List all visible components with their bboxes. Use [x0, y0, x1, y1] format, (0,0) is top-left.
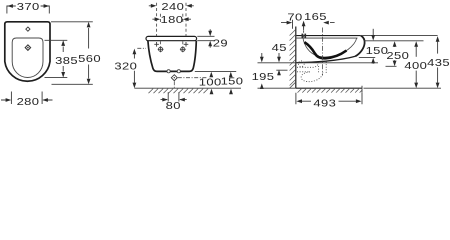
svg-text:560: 560 — [78, 54, 101, 64]
bidet inner rim (plan view) — [12, 38, 43, 77]
dimension 400 (side) — [404, 41, 427, 88]
tap hole lower (plan) — [25, 45, 30, 50]
dimension 493 (depth) — [296, 93, 362, 109]
dimension 385 (inner rim length) — [45, 40, 79, 77]
tap hole upper (plan) — [26, 27, 30, 31]
rim inner line (side) — [296, 37, 357, 39]
dashed hole axes (180 pair) — [160, 14, 182, 47]
dimension 320 (front height) — [114, 49, 137, 89]
dimension 80 (drain hole spacing) — [161, 92, 187, 111]
svg-text:165: 165 — [304, 12, 327, 22]
dimension 560 (plan length) — [51, 22, 101, 85]
dashed hole axes (240 pair) — [157, 3, 186, 36]
svg-text:45: 45 — [272, 43, 287, 53]
drain holes on bottom edge — [167, 70, 170, 73]
svg-text:80: 80 — [166, 101, 181, 111]
dimension 180 (inner fixing holes) — [152, 15, 191, 25]
dimension 250 (side) — [386, 41, 410, 66]
svg-text:100: 100 — [199, 78, 222, 88]
leader at rim lip level (right) — [364, 40, 424, 42]
front edge profile (side) — [355, 36, 364, 57]
dimension 370 (plan width) — [7, 2, 49, 13]
drain centreline (side) — [322, 28, 324, 76]
dimensions 100 and 150 (outlet offsets) — [195, 72, 244, 95]
svg-text:280: 280 — [17, 97, 40, 107]
rim top line (side) — [296, 35, 360, 37]
svg-text:400: 400 — [404, 61, 427, 71]
fixing hole crosses — [154, 42, 188, 47]
reference leader, ceramic underside level — [258, 62, 379, 64]
floor hatching (front) — [149, 89, 209, 94]
svg-text:435: 435 — [427, 58, 450, 68]
body (front view) — [148, 41, 196, 72]
svg-text:240: 240 — [161, 2, 184, 12]
svg-text:493: 493 — [313, 99, 336, 109]
dimension 29 (rim bar thickness) — [197, 29, 228, 49]
floor hatching (side) — [298, 88, 363, 92]
underside line (side) — [297, 56, 356, 62]
dimension 45 — [272, 43, 288, 75]
outlet diamond (front) — [171, 75, 177, 81]
dimension 435 (overall height) — [427, 36, 450, 88]
wall line (side view) — [295, 27, 297, 89]
floor line (side) — [296, 87, 362, 89]
leader at rim top level (right) — [362, 35, 438, 37]
wall hatching — [290, 30, 296, 89]
rim bar (front view) — [146, 36, 197, 40]
fixing axis dashed (side) — [303, 26, 305, 38]
svg-text:385: 385 — [55, 56, 78, 66]
svg-text:150: 150 — [366, 46, 389, 56]
svg-text:250: 250 — [386, 51, 409, 61]
floor line (front) — [134, 87, 241, 89]
hatch right edge — [361, 86, 363, 93]
bowl interior thin outline (side) — [303, 38, 357, 57]
svg-text:320: 320 — [114, 62, 137, 72]
svg-text:180: 180 — [160, 15, 183, 25]
bowl interior thick shadow curve (side) — [305, 42, 347, 58]
dimension 280 (plan bottom width) — [1, 92, 53, 108]
dimension 240 (outer fixing holes) — [149, 2, 194, 12]
svg-text:70: 70 — [287, 13, 302, 23]
dimensions 70 and 165 (wall offsets) — [281, 12, 335, 30]
dimension 195 — [252, 53, 275, 89]
dimension 150 (side, rim to underside) — [359, 29, 389, 64]
side fixing holes — [158, 46, 186, 52]
hidden drain pipe (dotted) — [297, 61, 326, 82]
wall bracket nub (side) — [302, 34, 304, 38]
svg-text:150: 150 — [221, 77, 244, 87]
floor level leader (right, dashed) — [364, 87, 442, 89]
svg-text:195: 195 — [252, 72, 275, 82]
floor leader left of wall — [258, 87, 296, 89]
svg-text:370: 370 — [17, 2, 40, 12]
bidet outer outline (plan view) — [5, 22, 50, 81]
svg-text:29: 29 — [213, 39, 228, 49]
centreline leaders (front) — [137, 48, 207, 88]
